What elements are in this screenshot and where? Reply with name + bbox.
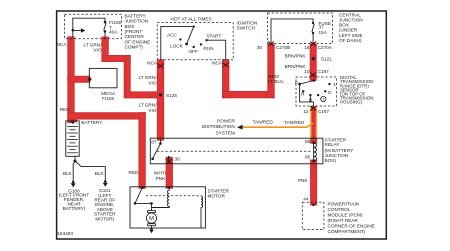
svg-text:OF DASH): OF DASH) [339, 38, 362, 43]
svg-text:BRN/PNK: BRN/PNK [285, 64, 307, 69]
svg-text:ACC: ACC [167, 33, 178, 38]
svg-text:86: 86 [305, 154, 311, 159]
svg-text:BRN/PNK: BRN/PNK [285, 53, 307, 58]
svg-text:PNK: PNK [298, 178, 309, 183]
svg-text:153493: 153493 [57, 231, 73, 236]
svg-text:POWERTRAIN: POWERTRAIN [328, 202, 360, 207]
svg-text:15A: 15A [319, 30, 328, 35]
svg-text:37: 37 [319, 24, 325, 29]
svg-text:PNK: PNK [156, 176, 167, 181]
svg-text:LT BLU: LT BLU [268, 79, 284, 84]
svg-text:44: 44 [303, 196, 309, 201]
svg-text:MOTOR: MOTOR [208, 194, 226, 199]
svg-text:BLK: BLK [63, 171, 73, 176]
svg-text:CORNER OF ENGINE: CORNER OF ENGINE [328, 224, 375, 229]
svg-text:30: 30 [175, 156, 181, 161]
svg-text:VIO: VIO [148, 108, 156, 113]
svg-text:DISTRIBUTION: DISTRIBUTION [202, 124, 235, 129]
svg-text:TAN/RED: TAN/RED [284, 120, 305, 125]
svg-text:85: 85 [305, 139, 311, 144]
svg-text:COMPARTMENT): COMPARTMENT) [328, 229, 366, 234]
svg-text:C270A: C270A [318, 45, 333, 50]
svg-text:MOTOR): MOTOR) [95, 216, 114, 221]
svg-text:START: START [206, 33, 221, 38]
svg-text:BOX): BOX) [325, 158, 337, 163]
svg-text:P: P [295, 80, 298, 85]
svg-text:OFF: OFF [189, 49, 199, 54]
svg-text:NCA: NCA [57, 42, 68, 47]
svg-text:TAN/RED: TAN/RED [253, 120, 274, 125]
svg-text:C187: C187 [318, 69, 330, 74]
svg-text:S125: S125 [166, 93, 177, 98]
svg-text:CONTROL: CONTROL [328, 207, 351, 212]
svg-text:HOT AT ALL TIMES: HOT AT ALL TIMES [171, 16, 212, 21]
svg-text:RED: RED [60, 107, 71, 112]
svg-text:WHT/: WHT/ [154, 171, 167, 176]
svg-text:40A: 40A [109, 30, 118, 35]
svg-text:FUSE: FUSE [102, 96, 115, 101]
svg-text:M: M [149, 216, 154, 222]
svg-text:POWER: POWER [217, 118, 235, 123]
svg-text:S121: S121 [321, 57, 332, 62]
svg-text:VIO: VIO [93, 47, 101, 52]
svg-text:HOUSING): HOUSING) [340, 100, 362, 105]
svg-text:NCA: NCA [147, 61, 158, 66]
svg-text:(RIGHT REAR: (RIGHT REAR [328, 218, 359, 223]
svg-text:MEGA: MEGA [101, 91, 116, 96]
svg-text:SWITCH: SWITCH [237, 26, 256, 31]
svg-text:BLK: BLK [95, 171, 105, 176]
svg-text:N: N [309, 98, 312, 103]
svg-text:30: 30 [257, 45, 263, 50]
svg-text:RUN: RUN [203, 46, 213, 51]
svg-text:RED: RED [128, 170, 139, 175]
svg-text:MODULE (PCM): MODULE (PCM) [328, 213, 363, 218]
svg-text:1: 1 [333, 82, 336, 87]
svg-text:VIO: VIO [148, 80, 156, 85]
svg-text:SYSTEM: SYSTEM [216, 131, 235, 136]
svg-text:C270B: C270B [276, 45, 290, 50]
svg-text:10: 10 [304, 69, 310, 74]
svg-text:12: 12 [303, 109, 309, 114]
svg-text:RELAY: RELAY [325, 142, 341, 147]
svg-text:LOCK: LOCK [170, 44, 184, 49]
svg-text:BATTERY): BATTERY) [63, 206, 86, 211]
svg-text:NCA: NCA [212, 60, 223, 65]
svg-text:87: 87 [151, 140, 157, 145]
svg-text:18: 18 [304, 45, 310, 50]
svg-text:BATTERY: BATTERY [81, 120, 103, 125]
svg-text:COMPT): COMPT) [125, 45, 144, 50]
svg-text:+: + [76, 122, 78, 126]
svg-text:C187: C187 [318, 109, 330, 114]
